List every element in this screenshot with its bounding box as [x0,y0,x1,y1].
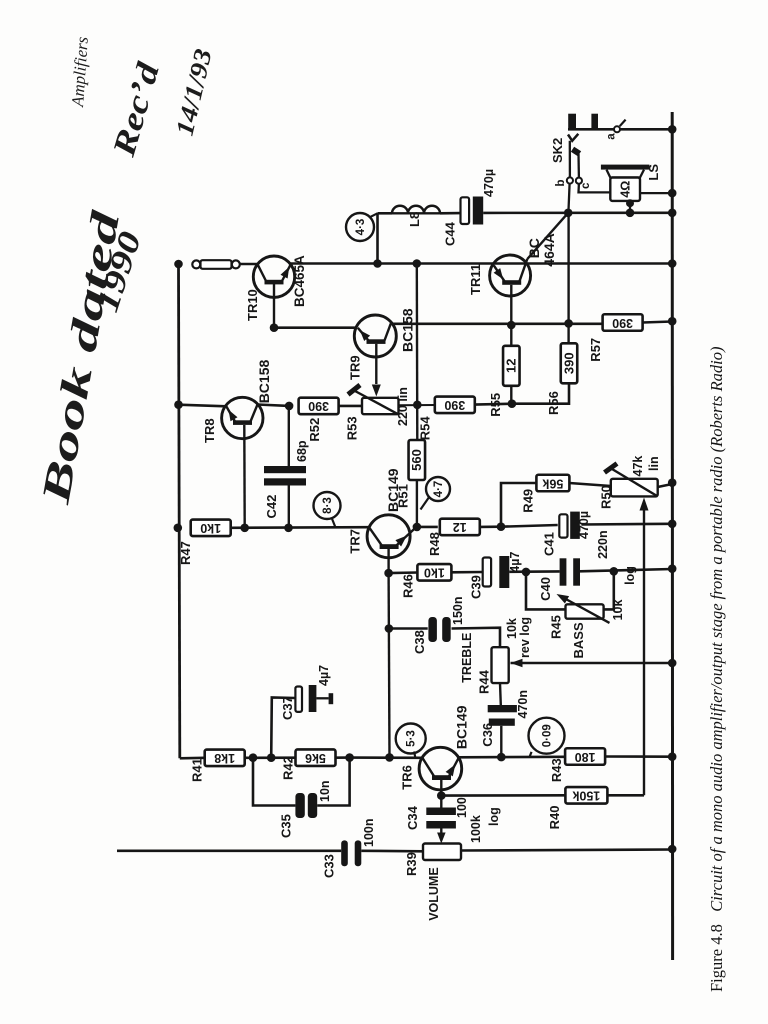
wire C38 to R44 [452,628,501,648]
resistor R42 5k6 [296,749,336,766]
wire TR11 collector diagonal to C44 node [527,213,568,259]
potentiometer R44 10k rev log TREBLE [492,647,523,683]
voltage marker 0-09 [529,718,565,754]
svg-text:47k: 47k [631,456,645,477]
svg-text:470µ: 470µ [482,169,496,197]
svg-text:180: 180 [575,750,596,764]
node R55/R54/R56 junction [508,399,517,408]
wire TR10 emitter rail to 0V bus [290,262,673,265]
wire R52 node down to C42 [288,406,290,466]
svg-text:R52: R52 [307,418,322,442]
wire R51 to TR7 emitter node [416,480,418,527]
svg-text:R46: R46 [400,574,415,598]
wire C33 to R39 [361,849,423,852]
svg-text:TR6: TR6 [399,765,414,790]
svg-text:150k: 150k [572,789,600,803]
svg-text:0·09: 0·09 [541,724,553,747]
node R57 at bus [668,317,677,326]
resistor R52 390 [299,398,339,415]
node TR10 base junction [270,323,279,332]
svg-text:R44: R44 [476,669,491,694]
svg-text:LS: LS [646,164,661,181]
capacitor C34 100 [440,796,442,808]
svg-text:8·3: 8·3 [322,497,334,514]
svg-text:TR7: TR7 [347,529,362,554]
wire output rail down to R51 [416,264,419,442]
potentiometer R45 10k log BASS [557,594,610,623]
wire corner to L8 [378,212,393,215]
node R47 at left bus [174,524,183,533]
svg-text:R43: R43 [549,758,564,782]
wire R55 bottom [510,386,512,404]
wire R47 row [231,526,369,529]
node TR8 emitter at left bus [174,400,183,409]
wire C44 to SK2/speaker node and 0V bus [483,212,672,215]
node R41/C35 junction [249,753,258,762]
node C39/C40/R45 junction [522,568,531,577]
svg-text:R45: R45 [548,615,563,639]
node C41 at bus [668,520,677,529]
svg-text:5·3: 5·3 [406,730,418,747]
svg-text:TR11: TR11 [468,264,483,295]
node output rail at 0V bus [668,259,677,268]
wire to C38 [389,627,428,630]
wire R44 wiper to bus [511,662,673,665]
loudspeaker LS 4 ohm [601,165,650,213]
node speaker bottom junction [626,209,635,218]
svg-text:4·3: 4·3 [355,219,367,236]
svg-text:BC149: BC149 [385,468,401,512]
svg-text:C42: C42 [264,495,279,519]
wire R41 to R42 [245,756,296,759]
svg-text:1k0: 1k0 [200,521,221,535]
voltage marker 4-7 [426,477,450,501]
node TR8 base junction [240,524,249,533]
svg-text:a: a [605,133,617,140]
wire left bus corner to R41 [180,756,206,759]
svg-text:TR9: TR9 [347,355,362,380]
capacitor C40 220n [560,558,567,585]
capacitor C37 4u7 [271,698,295,758]
svg-text:R40: R40 [547,806,562,830]
svg-text:R57: R57 [588,338,603,362]
node C40 row at bus [668,564,677,573]
jack SK2 tip contact [568,134,578,141]
svg-text:log: log [623,566,637,585]
svg-text:TR10: TR10 [245,289,260,321]
svg-text:14/1/93: 14/1/93 [172,47,218,139]
svg-text:390: 390 [612,316,633,330]
svg-text:R42: R42 [280,756,295,780]
svg-text:R48: R48 [427,532,442,556]
resistor R40 150k [565,787,607,804]
wire C40 to bus [580,569,672,571]
node C44/SK2-b junction [564,209,573,218]
capacitor C38 150n [428,617,437,642]
svg-text:R53: R53 [344,416,359,440]
svg-text:SK2: SK2 [550,138,565,163]
node R44 wiper at bus [668,659,677,668]
wire fuse to TR10 emitter [240,263,259,266]
node TR11 base row / R56 branch [564,319,573,328]
wire C36 down to TR6 row [500,726,502,757]
svg-text:464A: 464A [541,233,557,266]
svg-text:R41: R41 [189,758,204,782]
wire L8 to C44 [440,212,461,215]
svg-text:R54: R54 [417,416,432,441]
resistor R48 12 [440,519,480,536]
preset R53 220 lin [348,385,399,414]
fuse FS (link) body [192,260,200,268]
node: left bus to fuse junction [174,260,183,269]
node C38 branch [385,624,394,633]
transistor TR9 BC158 [354,315,396,397]
inductor L8 [392,206,440,213]
svg-text:Amplifiers: Amplifiers [68,36,92,109]
capacitor C33 100n [341,840,348,866]
node R42/C35 junction [345,753,354,762]
jack contact c [576,178,582,184]
wire TR11 collector node down to R56 [567,213,569,344]
svg-text:BC149: BC149 [453,705,469,749]
resistor R49 56k [536,475,569,492]
node C42 junction [284,524,293,533]
wire TR6 base to R40 [441,794,565,797]
resistor R47 1k0 [191,520,231,537]
transistor TR10 BC465A [253,256,294,328]
resistor R46 1k0 [417,564,451,581]
svg-text:b: b [555,179,567,186]
node R50 at bus [668,478,677,487]
node TR11 base [507,321,516,330]
svg-text:4Ω: 4Ω [618,181,632,198]
wire flag to c contact [577,154,580,178]
wire c contact to speaker [579,184,611,193]
svg-text:390: 390 [561,352,576,374]
transistor TR11 BC464A [490,255,531,326]
capacitor C39 4u7 [483,558,491,587]
svg-text:390: 390 [308,399,329,413]
svg-text:L8: L8 [407,212,422,227]
wire up to R49 [501,483,537,527]
svg-text:C38: C38 [412,630,427,654]
battery B1 cell plates [568,114,576,130]
node C40/R45 right junction [610,567,619,576]
wire R52 to R53 [339,405,362,408]
svg-text:100n: 100n [362,819,376,848]
wire R45 right up to C40 node [604,571,614,609]
svg-text:390: 390 [444,398,465,412]
resistor R41 1k8 [205,750,245,767]
wire R53 to R54 [399,404,436,406]
node TR7 emitter / R48 / R51 [413,523,422,532]
node C37 junction [267,753,276,762]
svg-text:470n: 470n [516,690,530,719]
wire TR7 node to R46 [389,571,418,574]
node R43 at bus [668,752,677,761]
wire TR6 emitter row [459,755,566,758]
wire R40 to R50 wiper line [607,794,644,797]
svg-text:C36: C36 [480,723,495,747]
switch contact a [614,126,620,132]
wire R54 to R55 node [474,402,512,405]
wire b contact down to C44 node [568,184,569,213]
wire R44 to C36 [499,683,502,705]
svg-text:4µ7: 4µ7 [317,665,331,686]
wire C41 row [501,525,558,527]
svg-text:C37: C37 [280,696,295,720]
node R53/R54/R51 junction [413,401,422,410]
capacitor C42 68p [264,466,306,473]
voltage marker 8-3 [314,492,341,519]
svg-text:220n: 220n [596,530,610,559]
wire C39 node down to R45 [526,572,566,610]
capacitor C36 470n [488,705,517,712]
wire R48 to C41 node [480,525,501,528]
node R39 at bus [668,845,677,854]
svg-text:BASS: BASS [571,622,586,658]
svg-text:log: log [487,807,501,826]
svg-text:R50: R50 [598,485,613,509]
svg-text:rev log: rev log [518,617,532,658]
wire R46 to C39 [451,571,482,574]
wire R56 to bottom row [512,383,569,403]
wire: +supply rail (left bus) [179,264,180,758]
wire TR7 node down (to TR6 collector) [387,573,390,757]
wire R42 node to TR6 [350,756,423,759]
node C36 junction [497,753,506,762]
svg-text:TREBLE: TREBLE [460,633,474,683]
svg-text:TR8: TR8 [202,418,217,443]
resistor R57 390 [603,314,643,331]
transistor TR6 BC149 [419,747,462,795]
resistor R51 560 [409,440,426,480]
wire speaker right to 0V bus [640,192,672,194]
wire R50 to bus [658,484,673,487]
svg-text:68p: 68p [295,440,309,462]
svg-text:BC: BC [526,238,542,258]
wire R39 to bus [461,850,672,851]
svg-text:C44: C44 [442,221,457,246]
wire TR8 collector to R52 node [258,405,290,406]
svg-text:C39: C39 [468,575,483,599]
jack contact b [567,177,573,183]
wire C39 to C40 [509,570,559,573]
voltage marker 4-3 [346,213,374,241]
node R48/R49/C41 junction [497,522,506,531]
svg-text:R39: R39 [404,852,419,876]
svg-text:12: 12 [453,520,467,534]
capacitor C44 470u [461,197,470,224]
potentiometer R50 47k lin [605,464,658,497]
potentiometer R39 100k log VOLUME [423,844,461,861]
wire R42 to TR6 row [335,756,350,759]
wire SK2 tip to b contact [569,141,571,178]
node TR6 base junction [437,791,446,800]
svg-text:C34: C34 [405,805,420,830]
wire R49 to R50 [569,483,610,486]
svg-text:c: c [580,182,592,189]
node output rail / R51 branch [413,259,422,268]
svg-text:1k0: 1k0 [424,566,445,580]
svg-text:10n: 10n [318,780,332,802]
transistor TR8 BC158 [222,397,263,528]
svg-text:12: 12 [504,359,519,373]
svg-text:C33: C33 [321,854,336,878]
svg-text:C41: C41 [541,532,556,556]
C34 wiper arrow to R39 [440,829,442,841]
svg-text:5k6: 5k6 [305,751,326,765]
node output rail / L8 branch [373,259,382,268]
wire TR11 base to R55 [510,325,512,346]
svg-text:R49: R49 [520,489,535,513]
wire battery/switch row to 0V bus [568,128,672,131]
svg-text:C35: C35 [278,814,293,838]
resistor R43 180 [565,748,605,765]
node switch wire at bus [668,125,677,134]
svg-text:1k8: 1k8 [214,751,235,765]
wire L8 branch vertical [376,213,379,263]
capacitor C41 470u [559,514,567,537]
node TR8 collector / R52 junction [285,402,294,411]
wire C41 to bus [581,522,672,525]
resistor R55 12 [503,346,520,386]
svg-text:560: 560 [409,449,424,471]
resistor R56 390 [561,343,578,383]
node C44 row at 0V bus [668,209,677,218]
svg-text:Figure 4.8 Circuit of a mono: Figure 4.8 Circuit of a mono audio ampli… [707,347,726,992]
wire R50 wiper down to R40 [643,511,645,796]
wire TR10 base to TR9 emitter [274,326,356,329]
wire TR9 collector to TR11 base row [391,322,604,325]
R50 wiper arrow [640,498,649,511]
voltage marker 5-3 [396,724,426,754]
wire: 0V rail (right bus) [671,112,674,960]
wire TR8 emitter to left bus [179,405,227,407]
svg-text:Rec’d: Rec’d [105,57,166,161]
svg-text:100k: 100k [469,815,483,843]
transistor TR7 BC149 [367,515,416,573]
svg-text:R47: R47 [178,541,193,565]
node TR7-base-line junction at TR6 row [385,753,394,762]
svg-text:lin: lin [647,456,661,471]
svg-text:4µ7: 4µ7 [508,552,522,573]
wire R57 to bus [643,322,673,323]
svg-text:100: 100 [455,797,469,818]
capacitor C35 10n [253,758,295,806]
wire input line [117,849,341,852]
wire R43 to bus [604,755,672,758]
svg-text:VOLUME: VOLUME [427,867,441,920]
svg-text:BC158: BC158 [399,308,415,352]
svg-text:C40: C40 [538,577,553,601]
svg-text:4·7: 4·7 [433,481,445,498]
wire C42 to TR7 base row [288,486,290,528]
svg-text:150n: 150n [451,597,465,626]
node TR7 collector-lead / R46 [384,569,393,578]
svg-text:56k: 56k [542,476,563,490]
node speaker at bus [668,189,677,198]
resistor R54 390 [435,397,475,414]
svg-text:BC158: BC158 [256,360,272,404]
